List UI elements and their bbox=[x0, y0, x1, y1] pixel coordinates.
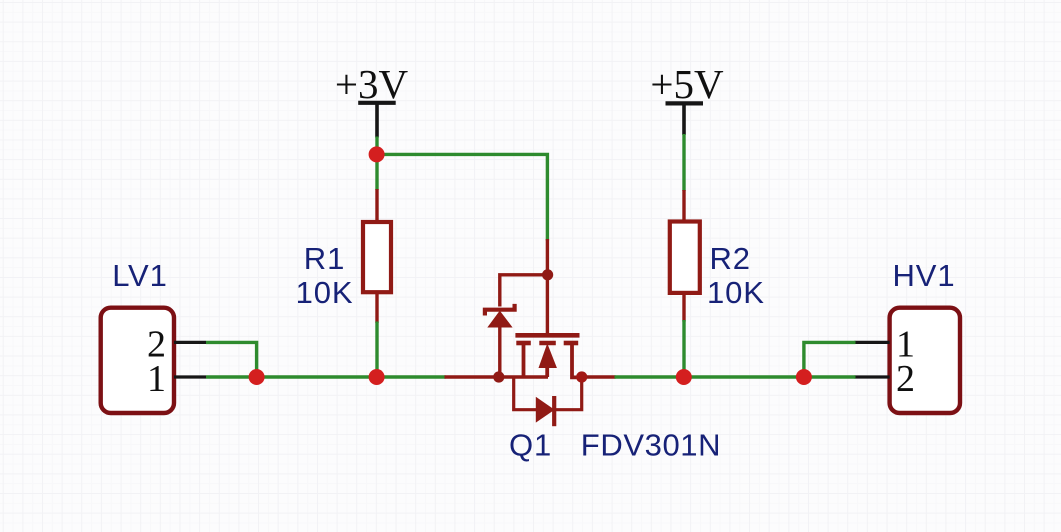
source stub bbox=[522, 344, 526, 377]
body diode loop bbox=[514, 377, 582, 410]
resistor R1 body bbox=[363, 222, 391, 292]
pin 1 line (LV1) bbox=[174, 375, 206, 378]
body stub bbox=[545, 366, 549, 377]
gate pin vertical bbox=[546, 239, 549, 335]
transistor Q1 FDV301N bbox=[485, 239, 582, 426]
svg-text:+5V: +5V bbox=[650, 61, 724, 107]
connector HV1 box bbox=[890, 308, 960, 413]
power symbol +5V bbox=[666, 103, 704, 135]
svg-text:LV1: LV1 bbox=[112, 258, 168, 293]
resistor R1 pins bbox=[375, 189, 378, 323]
junction dot LV1 bbox=[249, 369, 265, 385]
channel bar source bbox=[516, 341, 531, 346]
svg-text:R2: R2 bbox=[710, 241, 751, 276]
body arrow bbox=[539, 345, 556, 368]
wire green R2 bottom to rail bbox=[682, 320, 685, 377]
junction dot R2 bbox=[676, 369, 692, 385]
wire green +5V stem down bbox=[682, 134, 685, 191]
svg-text:FDV301N: FDV301N bbox=[581, 428, 721, 463]
junction dot +3V bbox=[369, 146, 385, 162]
svg-text:10K: 10K bbox=[707, 275, 765, 310]
wire green HV1 pin1 to junction bbox=[804, 342, 856, 377]
wire green rail right bbox=[615, 375, 856, 378]
body diode triangle bbox=[536, 398, 553, 422]
wire maroon rail into mosfet source bbox=[445, 375, 549, 378]
pin 2 line (HV1) bbox=[855, 375, 890, 378]
svg-text:HV1: HV1 bbox=[892, 258, 955, 293]
wire green R1 bottom to rail bbox=[375, 322, 378, 378]
pin 2 line (LV1) bbox=[174, 341, 206, 344]
junction dot zener anode bbox=[493, 371, 504, 382]
gate plate bbox=[515, 333, 579, 338]
power symbol +3V bbox=[358, 103, 396, 138]
junction dot HV1 bbox=[796, 369, 812, 385]
wire green +3V junction to gate corner bbox=[377, 154, 547, 240]
svg-text:1: 1 bbox=[147, 358, 166, 400]
svg-text:2: 2 bbox=[896, 358, 915, 400]
wire green LV1 pin2 to junction bbox=[206, 342, 257, 377]
pin 1 line (HV1) bbox=[855, 341, 890, 344]
resistor R2 body bbox=[670, 222, 700, 293]
wire maroon drain out bbox=[582, 375, 616, 378]
body diode cathode bar bbox=[552, 396, 556, 426]
resistor R2 pins bbox=[682, 190, 685, 322]
drain stub bbox=[572, 344, 582, 377]
junction dot drain bbox=[576, 371, 587, 382]
svg-text:10K: 10K bbox=[296, 275, 354, 310]
gate protection zener branch bbox=[500, 275, 548, 307]
wire green +3V stem to junction bbox=[375, 137, 378, 191]
channel bar drain bbox=[564, 341, 579, 346]
zener cathode bar bbox=[485, 304, 515, 316]
svg-text:+3V: +3V bbox=[335, 61, 409, 107]
svg-text:Q1: Q1 bbox=[509, 428, 552, 463]
channel bar body bbox=[539, 341, 556, 346]
wire green main rail left bbox=[206, 375, 446, 378]
zener anode to rail bbox=[498, 326, 501, 377]
junction dot R1 bbox=[369, 369, 385, 385]
connector LV1 box bbox=[101, 308, 174, 413]
zener triangle bbox=[488, 311, 511, 327]
junction dot gate bbox=[542, 269, 553, 280]
svg-text:R1: R1 bbox=[304, 241, 345, 276]
